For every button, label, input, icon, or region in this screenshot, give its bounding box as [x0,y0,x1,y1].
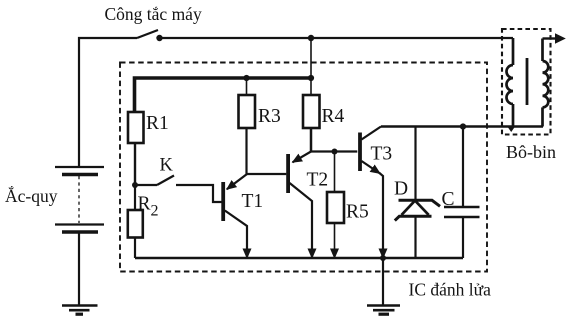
svg-text:R2: R2 [138,194,159,220]
resistor R5 [327,192,344,223]
ignition coil core [526,58,529,105]
svg-text:R4: R4 [322,106,345,127]
svg-text:Bô-bin: Bô-bin [506,142,556,162]
switch Công tắc máy (open blade) [137,30,158,38]
node: R1/R2/K junction [132,182,138,188]
wire: node to T2 base [247,173,287,175]
resistor R2 [128,210,143,238]
wire: high-voltage output with arrow [543,37,557,39]
wire: bus to R4 [310,78,312,95]
wire: T3 collector line to ignition coil primary [381,125,543,127]
ignition coil secondary winding [543,39,549,127]
svg-text:T1: T1 [242,191,264,212]
svg-text:R3: R3 [258,106,281,127]
diode D (zener) [395,127,440,259]
transistor T1 (PNP) [223,174,247,258]
transistor T3 (NPN) [360,127,383,259]
svg-text:IC đánh lửa: IC đánh lửa [409,280,492,300]
svg-text:D: D [394,179,408,200]
ground (IC) [367,306,400,315]
wire: top supply rail from switch to ignition coil [160,37,514,39]
node: capacitor C tap [460,123,466,129]
wire: R1 bottom to node K [134,143,136,185]
wire: K contact to T1 base [176,185,222,202]
wire: R5 bottom to ground bus [334,223,336,258]
svg-text:T2: T2 [307,170,329,191]
ground (battery) [62,306,98,315]
arrow: HV output [555,33,566,43]
ignition coil primary winding [506,38,513,127]
svg-text:K: K [160,156,174,176]
node: switch contact dot [156,35,162,41]
resistor R4 [303,95,320,128]
node: R5 tap on T3 base line [332,149,338,155]
node: bus to R3 junction [243,75,249,81]
wire: battery negative to ground [78,232,80,305]
Bô-bin dashed enclosure [502,29,551,135]
wire: T3 emitter to ground symbol [382,258,384,305]
svg-text:R5: R5 [346,202,369,223]
wire: node to T3 base [311,150,357,152]
capacitor C [444,127,480,259]
wire: battery positive to switch (top-left corner) [79,38,137,166]
resistor R1 [128,112,144,143]
svg-text:R1: R1 [146,113,169,134]
wire: thick supply bus inside IC (down to R1, right to R4 branch) [135,78,312,112]
battery Ắc-quy (two cells) [55,167,104,232]
wire: node to R5 [334,152,336,193]
node: coil primary bottom tap [508,127,515,132]
node: bus to R4 junction [308,75,314,81]
wire: R4 bottom to T2 emitter / T3 base node [310,128,313,152]
wire: R2 bottom to ground bus [134,238,136,259]
switch K (contact breaker) [135,184,157,186]
IC đánh lửa dashed enclosure [120,63,487,272]
wire: bottom ground bus [135,257,463,260]
svg-text:C: C [442,189,455,210]
node: emitter/ground bus junction [380,255,386,261]
transistor T2 (PNP) [288,152,312,259]
node: junction of supply rail and R4 branch [308,35,314,41]
svg-text:Ắc-quy: Ắc-quy [5,186,58,206]
svg-text:Công tắc máy: Công tắc máy [105,4,202,24]
resistor R3 [239,95,256,128]
svg-text:T3: T3 [371,144,393,165]
wire: bus to R3 [246,78,248,95]
wire: R3 bottom to T1 emitter / T2 base node [245,128,247,174]
wire: supply rail down to R4 (crosses dashed box) [310,38,312,78]
wire: node K down to R2 [134,185,136,210]
